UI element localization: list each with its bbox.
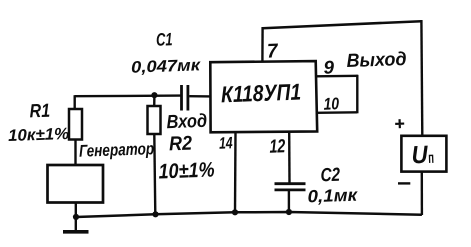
label Uп (411, 141, 434, 170)
node junction C2/rail (286, 209, 292, 215)
svg-text:0,047мк: 0,047мк (131, 56, 202, 76)
wire R1 top lead (73, 95, 75, 110)
battery Uп box (401, 136, 446, 172)
svg-text:C1: C1 (156, 29, 173, 50)
op-amp U1 box К118УП1 (210, 61, 317, 132)
wire R2 top lead (153, 95, 156, 107)
wire top rail (263, 21, 422, 28)
wire C1-to-IC (189, 95, 211, 98)
wire bottom rail (76, 212, 422, 217)
svg-text:U: U (411, 141, 429, 170)
svg-text:12: 12 (269, 136, 286, 158)
wire C2 bottom lead (288, 190, 290, 212)
svg-text:Генератор: Генератор (79, 139, 155, 161)
svg-text:14: 14 (219, 134, 233, 152)
svg-text:10±1%: 10±1% (158, 159, 215, 184)
wire pin 12 lead (288, 132, 291, 183)
svg-text:Вход: Вход (166, 111, 207, 133)
wire pin 14 lead (234, 132, 237, 213)
svg-text:9: 9 (323, 56, 335, 77)
svg-text:К118УП1: К118УП1 (221, 79, 302, 108)
svg-text:Выход: Выход (346, 49, 407, 72)
node junction generator/rail (73, 214, 79, 220)
node junction R2/main wire (151, 92, 157, 98)
wire pin 7 lead (261, 27, 264, 62)
svg-text:0,1мк: 0,1мк (307, 185, 358, 207)
wire pin 10 lead (316, 111, 357, 114)
svg-text:C2: C2 (320, 165, 341, 187)
minus terminal label (398, 182, 410, 184)
svg-text:R2: R2 (169, 133, 193, 156)
node junction pin14/rail (232, 209, 238, 215)
wire supply bottom lead (421, 172, 424, 216)
wire generator bottom lead (75, 203, 77, 232)
capacitor C1 (182, 85, 188, 111)
svg-text:7: 7 (267, 40, 279, 62)
resistor R2 (148, 106, 161, 134)
wire right vertical to supply (420, 20, 423, 136)
wire joining pins 9 and 10 (356, 75, 358, 114)
wire R1 bottom lead (74, 140, 76, 167)
wire pin 9 lead (316, 75, 358, 78)
svg-text:R1: R1 (29, 101, 50, 123)
ground (63, 230, 89, 234)
wire main horizontal R1-to-C1 (75, 94, 181, 97)
generator box (48, 165, 104, 203)
capacitor C2 (275, 184, 306, 190)
svg-text:10к±1%: 10к±1% (8, 125, 70, 145)
svg-text:10: 10 (323, 94, 340, 114)
plus terminal label (395, 119, 404, 128)
node junction R2/rail (152, 211, 158, 217)
svg-text:п: п (428, 150, 434, 167)
wire R2 bottom lead (154, 134, 155, 214)
resistor R1 (69, 109, 82, 140)
